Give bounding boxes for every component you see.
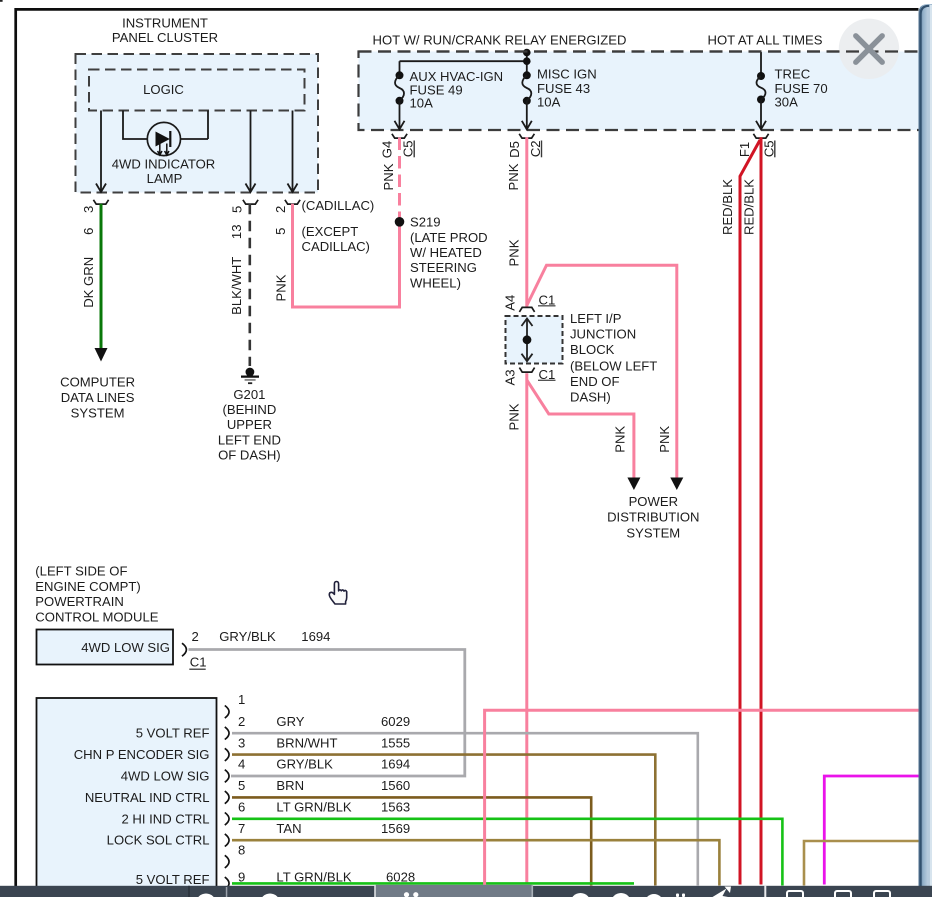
svg-text:1569: 1569 bbox=[381, 821, 410, 836]
wire PNK main from C2 bbox=[525, 137, 528, 307]
wire PNK below junction block bbox=[525, 373, 528, 884]
feed node bbox=[400, 52, 527, 75]
svg-text:END OF: END OF bbox=[570, 374, 619, 389]
fuse 49 bbox=[395, 69, 504, 130]
svg-text:OF DASH): OF DASH) bbox=[218, 448, 281, 463]
svg-text:C1: C1 bbox=[539, 292, 556, 307]
wire LT GRN/BLK 6028 pin9 bbox=[232, 882, 634, 885]
PCM connector box bbox=[37, 698, 217, 897]
svg-text:A3: A3 bbox=[503, 369, 518, 385]
svg-text:BLOCK: BLOCK bbox=[570, 342, 615, 357]
svg-text:SYSTEM: SYSTEM bbox=[626, 525, 680, 540]
wire TAN 1569 pin7 bbox=[232, 840, 719, 885]
svg-text:S219: S219 bbox=[410, 214, 441, 229]
ground G201 bbox=[218, 368, 281, 463]
svg-text:GRY/BLK: GRY/BLK bbox=[276, 757, 333, 772]
wire BRN/WHT 1555 pin3 bbox=[232, 755, 655, 886]
svg-text:10A: 10A bbox=[410, 95, 434, 110]
svg-text:PNK: PNK bbox=[657, 426, 672, 453]
svg-text:C2: C2 bbox=[528, 140, 543, 157]
svg-text:2 HI IND CTRL: 2 HI IND CTRL bbox=[121, 811, 209, 826]
svg-text:2: 2 bbox=[273, 206, 288, 213]
svg-text:CHN P ENCODER SIG: CHN P ENCODER SIG bbox=[74, 747, 210, 762]
svg-text:(LEFT SIDE OF: (LEFT SIDE OF bbox=[35, 564, 127, 579]
wire RED/BLK right bbox=[760, 137, 763, 884]
svg-text:PNK: PNK bbox=[381, 163, 396, 190]
svg-text:DASH): DASH) bbox=[570, 389, 611, 404]
svg-text:1: 1 bbox=[238, 692, 245, 707]
svg-text:(BELOW LEFT: (BELOW LEFT bbox=[570, 359, 657, 374]
svg-text:TAN: TAN bbox=[276, 821, 301, 836]
svg-text:9: 9 bbox=[238, 869, 245, 884]
wire BLK/WHT bbox=[249, 204, 252, 366]
wire PNK right area bbox=[485, 710, 919, 885]
svg-text:RED/BLK: RED/BLK bbox=[742, 179, 757, 235]
svg-text:STEERING: STEERING bbox=[410, 260, 477, 275]
svg-text:3: 3 bbox=[81, 206, 96, 213]
svg-text:8: 8 bbox=[238, 842, 245, 857]
svg-text:POWER: POWER bbox=[629, 494, 678, 509]
PCM 4WD LOW SIG box bbox=[37, 630, 174, 665]
svg-text:PNK: PNK bbox=[506, 403, 521, 430]
right panel bar bbox=[919, 0, 932, 897]
svg-text:(BEHIND: (BEHIND bbox=[222, 402, 276, 417]
svg-text:C1: C1 bbox=[190, 655, 207, 670]
svg-text:A4: A4 bbox=[503, 295, 518, 311]
power dist arrow right bbox=[670, 478, 683, 491]
power dist arrow left bbox=[627, 478, 640, 491]
svg-text:5 VOLT REF: 5 VOLT REF bbox=[136, 726, 210, 741]
svg-text:GRY: GRY bbox=[276, 714, 304, 729]
wire TAN right area bbox=[804, 841, 919, 886]
svg-text:DATA LINES: DATA LINES bbox=[61, 390, 135, 405]
svg-text:DK GRN: DK GRN bbox=[81, 257, 96, 308]
connector A4/C1 bbox=[503, 292, 556, 312]
svg-text:1563: 1563 bbox=[381, 800, 410, 815]
svg-text:2: 2 bbox=[238, 714, 245, 729]
svg-text:LEFT I/P: LEFT I/P bbox=[570, 311, 622, 326]
svg-text:10A: 10A bbox=[537, 95, 561, 110]
computer data lines label bbox=[60, 375, 135, 421]
PCM location label bbox=[35, 564, 158, 625]
svg-text:6028: 6028 bbox=[386, 869, 415, 884]
wire DK GRN bbox=[100, 204, 103, 349]
svg-text:LT GRN/BLK: LT GRN/BLK bbox=[276, 800, 351, 815]
svg-text:3: 3 bbox=[238, 735, 245, 750]
svg-text:5: 5 bbox=[238, 778, 245, 793]
toolbar icons bbox=[196, 887, 890, 897]
svg-text:CADILLAC): CADILLAC) bbox=[302, 239, 370, 254]
svg-text:1694: 1694 bbox=[301, 629, 330, 644]
svg-text:PANEL CLUSTER: PANEL CLUSTER bbox=[112, 30, 218, 45]
connector A3/C1 bbox=[503, 367, 556, 386]
close button bbox=[359, 19, 919, 79]
svg-text:UPPER: UPPER bbox=[227, 417, 272, 432]
svg-text:JUNCTION: JUNCTION bbox=[570, 327, 636, 342]
svg-text:4WD LOW SIG: 4WD LOW SIG bbox=[121, 769, 210, 784]
svg-text:C5: C5 bbox=[401, 140, 416, 157]
svg-text:2: 2 bbox=[192, 629, 199, 644]
svg-text:G4: G4 bbox=[380, 141, 395, 158]
wire BRN 1560 pin5 bbox=[232, 797, 591, 885]
svg-text:W/ HEATED: W/ HEATED bbox=[410, 245, 482, 260]
svg-text:BRN/WHT: BRN/WHT bbox=[276, 735, 337, 750]
svg-text:LAMP: LAMP bbox=[147, 171, 183, 186]
svg-text:PNK: PNK bbox=[274, 274, 289, 301]
svg-text:4WD INDICATOR: 4WD INDICATOR bbox=[112, 157, 216, 172]
svg-text:4: 4 bbox=[238, 757, 245, 772]
wire PNK branch lower to power dist bbox=[527, 380, 634, 478]
svg-text:BLK/WHT: BLK/WHT bbox=[229, 257, 244, 315]
cluster pin labels bbox=[81, 206, 288, 239]
junction block label bbox=[570, 311, 657, 404]
wire cluster pin3 internal bbox=[96, 111, 106, 193]
wire cluster pin2 internal bbox=[288, 111, 298, 193]
fuse 43 bbox=[522, 67, 597, 130]
svg-text:POWERTRAIN: POWERTRAIN bbox=[35, 594, 124, 609]
svg-text:SYSTEM: SYSTEM bbox=[71, 405, 125, 420]
connector D5/C2 bbox=[507, 134, 543, 158]
bottom toolbar bbox=[0, 885, 932, 897]
wire cluster pin5 internal bbox=[246, 111, 256, 193]
svg-text:5 VOLT REF: 5 VOLT REF bbox=[136, 872, 210, 887]
svg-text:1555: 1555 bbox=[381, 735, 410, 750]
svg-text:(CADILLAC): (CADILLAC) bbox=[302, 198, 375, 213]
svg-text:HOT W/ RUN/CRANK RELAY ENERGIZ: HOT W/ RUN/CRANK RELAY ENERGIZED bbox=[373, 33, 627, 48]
svg-text:5: 5 bbox=[273, 228, 288, 235]
svg-text:6029: 6029 bbox=[381, 714, 410, 729]
power distribution label bbox=[607, 494, 699, 541]
svg-text:PNK: PNK bbox=[506, 163, 521, 190]
connector G4/C5 bbox=[380, 134, 416, 158]
svg-text:LOGIC: LOGIC bbox=[143, 82, 184, 97]
connector F1/C5 bbox=[737, 134, 776, 158]
svg-text:DISTRIBUTION: DISTRIBUTION bbox=[607, 510, 699, 525]
svg-text:13: 13 bbox=[229, 225, 244, 240]
svg-text:30A: 30A bbox=[775, 95, 799, 110]
splice S219 bbox=[395, 214, 488, 290]
logic box bbox=[89, 70, 305, 111]
connector below cluster pin3 bbox=[93, 200, 108, 204]
svg-text:C1: C1 bbox=[539, 367, 556, 382]
4WD indicator lamp bbox=[112, 122, 216, 185]
svg-text:G201: G201 bbox=[233, 387, 265, 402]
PCM pin brackets bbox=[225, 706, 229, 719]
svg-text:CONTROL MODULE: CONTROL MODULE bbox=[35, 609, 158, 624]
lamp wiring bbox=[123, 111, 208, 140]
svg-text:(LATE PROD: (LATE PROD bbox=[410, 230, 488, 245]
svg-text:RED/BLK: RED/BLK bbox=[720, 179, 735, 235]
hand cursor bbox=[329, 582, 346, 605]
arrow to computer data lines bbox=[95, 348, 108, 362]
svg-text:WHEEL): WHEEL) bbox=[410, 275, 461, 290]
svg-text:4WD LOW SIG: 4WD LOW SIG bbox=[81, 640, 170, 655]
fuse distribution box bbox=[359, 52, 932, 131]
svg-text:GRY/BLK: GRY/BLK bbox=[219, 629, 276, 644]
svg-text:COMPUTER: COMPUTER bbox=[60, 375, 135, 390]
svg-text:1694: 1694 bbox=[381, 757, 410, 772]
svg-text:NEUTRAL IND CTRL: NEUTRAL IND CTRL bbox=[85, 790, 210, 805]
svg-text:LT GRN/BLK: LT GRN/BLK bbox=[276, 869, 351, 884]
PCM pin2 bracket bbox=[182, 643, 186, 656]
svg-text:1560: 1560 bbox=[381, 778, 410, 793]
instrument panel cluster box bbox=[76, 54, 319, 193]
wire PNK branch upper to power dist bbox=[527, 265, 677, 478]
svg-text:6: 6 bbox=[238, 800, 245, 815]
svg-text:HOT AT ALL TIMES: HOT AT ALL TIMES bbox=[708, 32, 823, 47]
cadillac note bbox=[302, 198, 375, 254]
svg-text:F1: F1 bbox=[737, 142, 752, 157]
wire PNK dashed from G4 bbox=[398, 138, 401, 218]
svg-text:7: 7 bbox=[238, 821, 245, 836]
svg-text:LEFT END: LEFT END bbox=[218, 432, 281, 447]
svg-text:5: 5 bbox=[230, 206, 245, 213]
wire PNK except-cadillac bbox=[293, 204, 400, 307]
wire MAG right area bbox=[824, 776, 919, 885]
fuse 70 TREC bbox=[756, 52, 828, 129]
svg-text:D5: D5 bbox=[507, 141, 522, 158]
svg-text:TREC: TREC bbox=[775, 67, 811, 82]
svg-text:LOCK SOL CTRL: LOCK SOL CTRL bbox=[107, 833, 210, 848]
svg-text:C5: C5 bbox=[761, 140, 776, 157]
svg-text:INSTRUMENT: INSTRUMENT bbox=[122, 16, 208, 31]
svg-text:ENGINE COMPT): ENGINE COMPT) bbox=[35, 579, 140, 594]
connector below cluster pin2 bbox=[285, 200, 300, 204]
wire GRY 6029 pin2 bbox=[232, 733, 698, 885]
left I/P junction block bbox=[506, 316, 563, 364]
wire GRY/BLK 1694 loop bbox=[189, 650, 465, 777]
wire RED/BLK left bbox=[740, 140, 760, 885]
svg-text:PNK: PNK bbox=[613, 426, 628, 453]
wire LT GRN/BLK 1563 pin6 bbox=[232, 819, 782, 886]
connector below cluster pin5 bbox=[243, 200, 258, 204]
svg-text:BRN: BRN bbox=[276, 778, 304, 793]
svg-text:(EXCEPT: (EXCEPT bbox=[302, 224, 359, 239]
svg-text:6: 6 bbox=[81, 228, 96, 235]
svg-text:MISC IGN: MISC IGN bbox=[537, 67, 597, 82]
svg-text:PNK: PNK bbox=[507, 239, 522, 266]
